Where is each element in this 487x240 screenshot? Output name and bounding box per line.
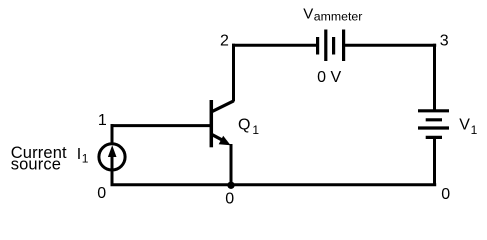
svg-text:0: 0 — [441, 186, 450, 203]
svg-text:source: source — [11, 156, 61, 174]
wire top-right: Vammeter to node 3 — [344, 44, 437, 47]
svg-text:0 V: 0 V — [317, 69, 341, 86]
svg-text:2: 2 — [220, 33, 229, 50]
svg-text:1: 1 — [82, 151, 89, 165]
svg-text:0: 0 — [97, 185, 106, 202]
battery V1 — [418, 111, 449, 138]
svg-text:V: V — [303, 5, 313, 22]
wire right vertical: V1 down to node 0 — [433, 137, 436, 186]
svg-text:ammeter: ammeter — [314, 10, 363, 24]
wire right vertical: node 3 down to V1 — [433, 44, 436, 111]
svg-text:I: I — [77, 146, 81, 163]
wire bottom horizontal (ground rail, node 0) — [111, 183, 437, 186]
current source I1 — [99, 144, 125, 170]
junction dot at emitter/ground — [227, 182, 234, 189]
svg-text:1: 1 — [252, 123, 259, 137]
svg-text:Q: Q — [238, 117, 250, 134]
svg-text:1: 1 — [98, 112, 107, 129]
wire base: node 1 to transistor base — [111, 124, 212, 127]
svg-text:V: V — [459, 117, 470, 134]
wire emitter vertical: Q1 down to node 0 — [230, 144, 233, 186]
svg-text:3: 3 — [440, 33, 449, 50]
wire collector vertical: node 2 down to Q1 — [232, 44, 235, 102]
wire top-left: node 2 to Vammeter — [232, 44, 317, 47]
voltage source Vammeter (0 V battery symbol) — [318, 30, 344, 62]
wire left vertical: current source down to node 0 — [111, 171, 114, 186]
transistor Q1 — [211, 100, 233, 147]
wire left vertical: node 1 down to current source — [111, 124, 114, 144]
svg-text:0: 0 — [225, 190, 234, 207]
svg-text:1: 1 — [471, 123, 478, 137]
